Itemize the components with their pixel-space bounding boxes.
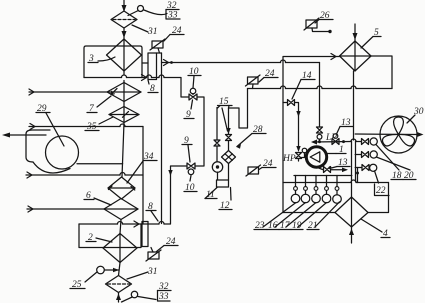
distribution manifold	[294, 175, 352, 177]
valve 13 on LP line	[332, 134, 339, 145]
riser double segment	[352, 141, 356, 182]
wire frame left top y182	[283, 180, 389, 183]
valve 9/10 upper	[189, 88, 197, 100]
label 13 upper	[337, 118, 354, 134]
heat exchanger 35 (diamond)	[109, 107, 139, 123]
suction valve HP	[296, 146, 307, 161]
solenoid branch 2	[355, 151, 377, 158]
enclosure rect of exchanger 3	[84, 46, 142, 78]
solenoid branch 1	[362, 138, 378, 145]
wire stack 2 to 31 bottom	[119, 263, 121, 276]
sensor 24 right	[246, 75, 261, 89]
label 35	[85, 117, 113, 132]
wire receiver drop x283	[282, 57, 284, 213]
label 14	[292, 71, 315, 99]
manifold drop 5	[333, 176, 342, 204]
subcooler 8 top (narrow rect)	[148, 53, 157, 80]
label 13 lower	[332, 158, 351, 168]
label 10 upper	[188, 67, 201, 88]
svg-text:22: 22	[376, 186, 386, 196]
filter drier 28 (diamond)	[222, 151, 236, 181]
label 10 lower	[184, 176, 197, 194]
label 23	[254, 203, 296, 232]
label 32 bottom	[158, 282, 172, 292]
label 19	[291, 203, 327, 232]
heat exchanger 34 (diamond)	[108, 177, 135, 199]
label 8 top	[148, 80, 158, 94]
wire condenser right to frame	[371, 56, 392, 89]
label 9 upper	[184, 100, 194, 120]
wire top stack inlet	[122, 0, 127, 12]
label 7	[87, 96, 111, 114]
manifold drop 4	[322, 176, 331, 203]
wire evaporator bottom arrow	[349, 227, 354, 243]
pump 11	[212, 162, 222, 180]
label 16	[267, 203, 306, 232]
wire liquid feed to expansion valves	[229, 89, 248, 129]
evaporator 4 (diamond)	[335, 183, 368, 228]
compressor 1	[306, 147, 326, 167]
heat exchanger 7 (diamond)	[107, 83, 141, 102]
wire valve top to valve bottom	[195, 97, 204, 166]
air duct from wheel	[77, 163, 123, 165]
valve 33 bottom	[122, 291, 157, 302]
tank 12	[217, 180, 229, 187]
label 11	[205, 188, 217, 201]
wire stack bottom with up arrow	[116, 293, 121, 303]
wire LP line	[311, 139, 362, 145]
svg-text:31: 31	[147, 27, 158, 37]
valve 14	[283, 100, 301, 151]
label 17	[279, 203, 316, 232]
label 30	[407, 107, 424, 123]
wire condenser feed y56	[283, 54, 340, 60]
label 2	[86, 233, 112, 243]
valve 9/10 lower	[187, 163, 195, 175]
fan 30	[380, 116, 417, 153]
label 9 lower	[182, 136, 192, 162]
heat exchanger 3 (diamond)	[107, 39, 142, 123]
wire x357.5 drop	[356, 168, 359, 183]
air duct into coil 7	[29, 89, 107, 95]
label 18	[376, 145, 403, 182]
air duct into 6	[27, 206, 104, 212]
manifold drop 1	[291, 176, 300, 203]
wire suction drop x319.5	[319, 63, 321, 128]
label 1	[328, 145, 346, 155]
blower outlet arrow	[2, 133, 46, 138]
svg-text:31: 31	[147, 267, 158, 277]
sensor 24 top	[150, 39, 165, 53]
valve 25	[97, 266, 119, 274]
heat exchanger 2 (diamond)	[103, 234, 137, 263]
enclosure rect of exchanger 2	[79, 224, 141, 248]
sensor 24 mid	[246, 165, 261, 176]
expansion valve 15 left line	[214, 108, 220, 162]
wire long vertical x161.5	[161, 53, 163, 224]
label 33 bottom	[158, 291, 171, 303]
air duct lower	[26, 172, 143, 178]
label 22	[375, 171, 390, 196]
fan line	[355, 132, 423, 137]
label 24 top	[164, 26, 184, 41]
valve 13 above compressor	[317, 127, 323, 142]
blower 29 casing	[26, 130, 70, 173]
discharge line from compressor	[318, 166, 349, 172]
label 32 top	[166, 1, 179, 11]
wire frame top y88	[248, 86, 393, 89]
label 4	[361, 219, 390, 239]
expansion valve 15 right line	[222, 108, 232, 151]
subcooler 8 bottom (narrow rect)	[142, 222, 148, 247]
label 24 right	[259, 69, 278, 82]
label 3	[88, 54, 115, 64]
wire stack between 31 and 3	[122, 28, 127, 39]
svg-text:LP: LP	[325, 133, 337, 143]
label 12	[219, 188, 232, 212]
wire frame bottom	[283, 183, 389, 213]
label 26	[315, 11, 333, 23]
damper 31 bottom (dashed diamond)	[106, 276, 132, 293]
svg-text:HP: HP	[282, 154, 296, 164]
wire liquid line y78	[142, 75, 190, 98]
heat exchanger 6 (diamond)	[104, 199, 138, 220]
wire return line y224	[134, 221, 171, 227]
label 25	[70, 272, 97, 290]
label 34	[127, 152, 157, 183]
sensor 26	[304, 18, 332, 33]
manifold drop 2	[301, 176, 310, 203]
sensor 24 bottom-left	[146, 248, 161, 262]
damper 31 top (dashed diamond)	[111, 11, 137, 28]
label 21	[307, 202, 340, 231]
duct drop right	[142, 127, 144, 225]
air duct upper return	[29, 124, 143, 130]
label 33 top	[166, 10, 180, 21]
label 24 bottom-left	[157, 237, 179, 252]
manifold drop 3	[312, 176, 321, 203]
wire valve lower to bottom	[168, 166, 187, 224]
condenser 5 (diamond)	[340, 41, 372, 71]
blower 29 wheel	[46, 136, 79, 169]
solenoid branch 3	[355, 164, 377, 171]
label 5	[361, 28, 381, 48]
label 24 mid	[259, 159, 276, 170]
label 8 bottom	[146, 202, 158, 221]
riser from condenser	[353, 71, 355, 140]
label 31 top	[132, 25, 158, 37]
wire stack 6 to 2	[120, 220, 121, 234]
label 6	[84, 191, 111, 205]
wire rect3 to 8	[142, 62, 148, 64]
label 31 bottom	[127, 267, 158, 279]
label 15	[218, 97, 233, 108]
wire stack 35 to 34	[122, 123, 124, 178]
label 28	[236, 125, 266, 149]
wire condenser top arrow	[353, 24, 358, 41]
label 20	[376, 157, 416, 181]
wire hot gas line y62	[157, 53, 320, 66]
valve 32 top	[128, 6, 167, 16]
label 29	[36, 104, 64, 146]
